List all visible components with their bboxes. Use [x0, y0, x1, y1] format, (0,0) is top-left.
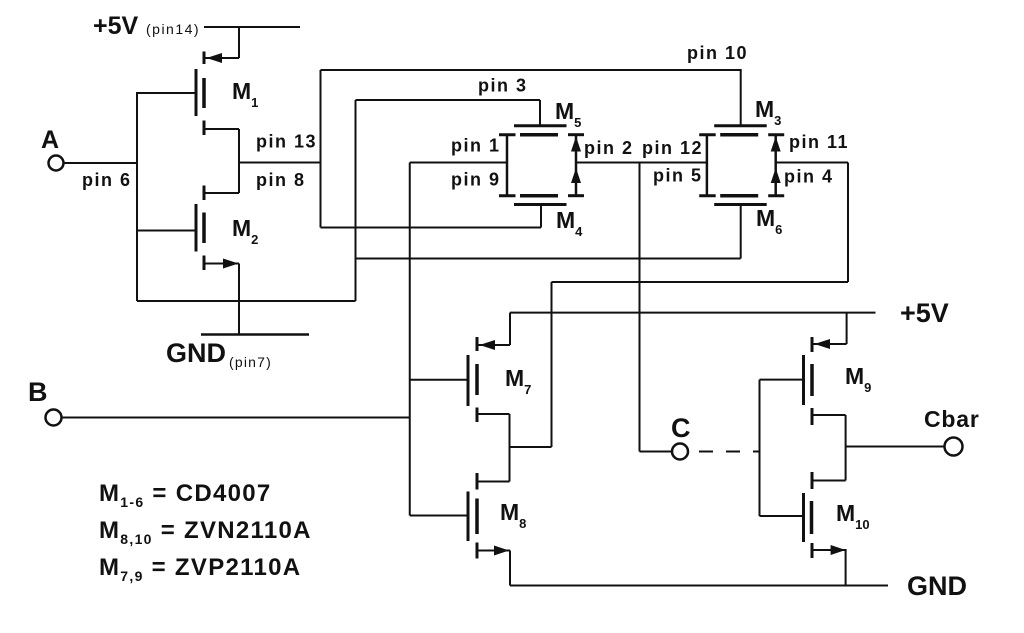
wire inverter1 output vertical	[238, 129, 240, 193]
wire M6 gate lead	[740, 205, 742, 259]
wire M9 gate lead	[760, 379, 804, 381]
label pin 8	[256, 170, 306, 190]
svg-text:A: A	[41, 126, 59, 154]
svg-text:GND: GND	[166, 338, 226, 368]
wire M7 source up	[509, 313, 511, 345]
wire pin 11 output	[776, 162, 848, 164]
svg-text:pin 5: pin 5	[653, 166, 703, 186]
wire Cbar output	[846, 446, 944, 448]
svg-text:M1-6 = CD4007: M1-6 = CD4007	[99, 480, 272, 510]
svg-text:M2: M2	[232, 215, 258, 247]
wire down to inverter2 output	[551, 282, 553, 447]
svg-text:pin 6: pin 6	[82, 170, 132, 190]
svg-text:M8: M8	[500, 499, 526, 531]
svg-text:M8,10 = ZVN2110A: M8,10 = ZVN2110A	[99, 517, 312, 547]
transistor M8	[468, 473, 510, 559]
wire Abar bus vertical	[320, 70, 322, 228]
ground rail bottom	[510, 585, 888, 587]
svg-text:pin 3: pin 3	[478, 76, 528, 96]
wire A bus bottom	[137, 300, 356, 302]
label M7	[505, 365, 531, 397]
svg-text:(pin14): (pin14)	[146, 21, 200, 37]
label GND (pin7)	[166, 338, 272, 370]
wire M8 gate lead	[410, 515, 468, 517]
wire C dashed link	[699, 451, 760, 453]
label pin 12	[642, 138, 703, 158]
wire M2 gate lead	[137, 230, 196, 232]
label M10	[836, 500, 870, 532]
svg-text:pin 1: pin 1	[451, 136, 501, 156]
svg-text:pin 10: pin 10	[687, 43, 748, 63]
wire M1 gate lead	[137, 92, 196, 94]
wire inverter2 output vertical	[509, 414, 511, 482]
label M5	[555, 98, 581, 130]
svg-text:pin 12: pin 12	[642, 138, 703, 158]
label +5V (pin14)	[93, 12, 200, 40]
svg-text:Cbar: Cbar	[924, 406, 980, 432]
label C	[671, 413, 691, 443]
wire pin13/pin8 output	[239, 162, 321, 164]
svg-text:pin 8: pin 8	[256, 170, 306, 190]
svg-text:pin 2: pin 2	[584, 138, 634, 158]
wire M10 source down	[845, 550, 847, 586]
transistor M2	[196, 186, 239, 271]
svg-text:M10: M10	[836, 500, 870, 532]
svg-text:+5V: +5V	[900, 298, 949, 328]
svg-text:(pin7): (pin7)	[229, 354, 272, 370]
ground bar (pin7)	[201, 333, 309, 336]
wire A lead	[64, 162, 138, 164]
label M1	[232, 78, 258, 110]
svg-text:+5V: +5V	[93, 12, 139, 40]
label pin 1	[451, 136, 501, 156]
wire M9 source up	[846, 313, 848, 344]
wire M2 source to ground	[238, 264, 240, 335]
wire B bus vertical	[409, 163, 411, 516]
wire pin11 vertical down	[847, 163, 849, 283]
legend M7,9 = ZVP2110A	[99, 554, 301, 584]
legend M1-6 = CD4007	[99, 480, 272, 510]
label pin 6	[82, 170, 132, 190]
wire B lead	[62, 417, 410, 419]
label M2	[232, 215, 258, 247]
svg-text:M6: M6	[756, 205, 782, 237]
wire M5 gate lead	[539, 100, 541, 126]
svg-text:M7,9 = ZVP2110A: M7,9 = ZVP2110A	[99, 554, 301, 584]
svg-text:M4: M4	[556, 207, 583, 239]
label +5V bottom	[900, 298, 949, 328]
wire M4 gate lead	[540, 205, 542, 228]
wire Abar to M4 gate	[321, 227, 542, 229]
wire M1 source to +5V rail	[238, 26, 240, 58]
label M6	[756, 205, 782, 237]
label Cbar	[924, 406, 980, 432]
wire pin11 horizontal back	[552, 281, 849, 283]
transistor M10	[804, 472, 847, 558]
label M8	[500, 499, 526, 531]
svg-text:M9: M9	[845, 363, 871, 395]
label pin 3	[478, 76, 528, 96]
label pin 4	[784, 167, 834, 187]
wire B to TG input pin1/pin9	[410, 162, 507, 164]
wire A bus right vertical	[355, 100, 357, 301]
wire C branch vertical	[639, 163, 641, 452]
wire into inverter2 output node	[510, 446, 552, 448]
transmission gate M3/M6	[699, 126, 784, 205]
svg-text:pin 13: pin 13	[256, 132, 317, 152]
wire M8 source down	[509, 551, 511, 586]
wire C branch horizontal	[640, 451, 673, 453]
svg-text:M1: M1	[232, 78, 258, 110]
label pin 13	[256, 132, 317, 152]
wire M10 gate lead	[760, 515, 804, 517]
label pin 2	[584, 138, 634, 158]
power +5V rail (pin14)	[204, 26, 300, 28]
label M4	[556, 207, 583, 239]
wire M9/M10 gate bus	[759, 380, 761, 516]
svg-text:M3: M3	[755, 96, 781, 128]
label B	[28, 377, 48, 407]
svg-text:pin 9: pin 9	[451, 170, 501, 190]
label pin 5	[653, 166, 703, 186]
wire pin 10 to M3 gate	[321, 69, 742, 71]
node B terminal	[46, 410, 62, 426]
wire pin 3 to M5 gate	[356, 99, 541, 101]
node Cbar terminal	[945, 438, 963, 456]
wire inverter3 output vertical	[845, 415, 847, 481]
node C terminal	[672, 444, 688, 460]
label M3	[755, 96, 781, 128]
label M9	[845, 363, 871, 395]
label GND bottom	[907, 571, 967, 601]
node A terminal	[49, 156, 64, 171]
transistor M1	[196, 52, 239, 136]
svg-text:M7: M7	[505, 365, 531, 397]
wire input A bus vertical	[136, 92, 138, 301]
label A	[41, 126, 59, 154]
svg-text:pin 11: pin 11	[789, 132, 849, 152]
label pin 11	[789, 132, 849, 152]
svg-text:C: C	[671, 413, 691, 443]
wire M3 gate lead	[740, 70, 742, 126]
legend M8,10 = ZVN2110A	[99, 517, 312, 547]
svg-text:B: B	[28, 377, 48, 407]
wire pin2 to pin12	[576, 162, 707, 164]
wire A to M6 gate	[356, 258, 741, 260]
transistor M7	[468, 337, 510, 422]
label pin 10	[687, 43, 748, 63]
transmission gate M5/M4	[499, 126, 584, 205]
svg-text:pin 4: pin 4	[784, 167, 834, 187]
svg-text:GND: GND	[907, 571, 967, 601]
power +5V rail bottom	[510, 312, 876, 314]
wire M7 gate lead	[410, 379, 468, 381]
label pin 9	[451, 170, 501, 190]
transistor M9	[804, 337, 847, 425]
